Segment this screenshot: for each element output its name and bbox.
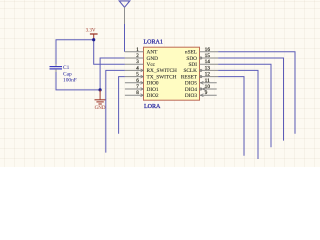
pin name DIO1: [147, 87, 159, 93]
pin 15 edge bubble: [200, 57, 202, 59]
pin 11 DIO5 stub: [200, 82, 217, 84]
svg-text:8: 8: [136, 90, 139, 96]
pin number 4: [136, 65, 139, 71]
wire pin15 SDO: [218, 58, 283, 141]
pin name Vcc: [147, 62, 156, 68]
svg-text:6: 6: [136, 78, 139, 84]
pin number 1: [136, 47, 139, 53]
wire pin12 RESET: [218, 77, 244, 156]
svg-text:LORA1: LORA1: [144, 39, 163, 45]
IC value label LORA: [144, 104, 161, 110]
pin name SDO: [186, 56, 197, 62]
pin number 5: [136, 72, 139, 78]
pin 8 DIO2 stub: [125, 94, 144, 96]
antenna pin stub: [124, 7, 126, 24]
pin name DIO4: [185, 87, 197, 93]
svg-text:DIO1: DIO1: [147, 87, 159, 93]
pin 12 RESET stub: [200, 76, 219, 78]
pin 10 DIO4 stub: [200, 88, 217, 90]
wire pin14 SDI: [218, 64, 271, 147]
wire RX_SWITCH going down: [106, 70, 125, 152]
svg-text:RX_SWITCH: RX_SWITCH: [147, 68, 177, 74]
pin number 14: [205, 59, 211, 65]
pin name DIO0: [147, 81, 159, 87]
pin 6 edge arrow left: [141, 81, 144, 84]
pin name DIO2: [147, 93, 159, 99]
pin 4 edge arrow left: [141, 69, 144, 72]
pin name SCLK: [183, 68, 197, 74]
svg-text:3.3V: 3.3V: [86, 27, 96, 33]
pin 7 edge arrow left: [141, 88, 144, 91]
svg-text:10: 10: [205, 84, 211, 90]
svg-text:1: 1: [136, 47, 139, 53]
svg-text:12: 12: [205, 72, 211, 78]
junction node ground: [99, 88, 102, 91]
pin 13 edge bubble: [200, 69, 202, 71]
pin 16 nSEL stub: [200, 51, 219, 53]
svg-text:RESET: RESET: [181, 74, 198, 80]
3.3V power symbol: [86, 27, 98, 39]
svg-text:SDI: SDI: [188, 62, 197, 68]
wire C1 bottom to ground junction: [56, 72, 100, 90]
pin 12 edge bubble: [200, 76, 202, 78]
pin 8 edge arrow left: [141, 94, 144, 97]
svg-text:2: 2: [136, 53, 139, 59]
pin 10 edge bubble: [200, 88, 202, 90]
svg-text:DIO5: DIO5: [185, 81, 197, 87]
pin 11 edge arrow: [201, 81, 204, 84]
pin 6 DIO0 stub: [125, 82, 144, 84]
pin 15 SDO stub: [200, 57, 219, 59]
svg-text:C1: C1: [63, 65, 70, 71]
svg-text:14: 14: [205, 59, 211, 65]
svg-text:16: 16: [205, 47, 211, 53]
pin name SDI: [188, 62, 197, 68]
pin 7 DIO1 stub: [125, 88, 144, 90]
pin number 10: [205, 84, 211, 90]
svg-text:SCLK: SCLK: [183, 68, 197, 74]
pin 10 edge arrow: [203, 88, 206, 91]
pin number 6: [136, 78, 139, 84]
svg-text:GND: GND: [147, 56, 159, 62]
svg-text:Cap: Cap: [63, 71, 72, 77]
pin 9 edge arrow: [201, 94, 204, 97]
svg-text:11: 11: [205, 78, 210, 84]
pin 5 TX_SWITCH stub: [125, 76, 144, 78]
svg-text:9: 9: [205, 90, 208, 96]
wire 3.3V rail to C1 top: [56, 40, 94, 64]
IC designator LORA1: [144, 39, 163, 45]
IC U1 body LORA1: [144, 47, 200, 100]
wire GND pin down to ground: [100, 58, 125, 90]
pin 13 SCLK stub: [200, 69, 219, 71]
pin number 11: [205, 78, 210, 84]
ground symbol GND: [95, 90, 106, 111]
pin 5 edge arrow left: [141, 75, 144, 78]
pin 14 SDI stub: [200, 63, 219, 65]
svg-text:DIO2: DIO2: [147, 93, 159, 99]
svg-text:15: 15: [205, 53, 211, 59]
svg-text:Vcc: Vcc: [147, 62, 156, 68]
junction node 3.3V: [92, 38, 95, 41]
pin 2 GND stub: [125, 57, 144, 59]
pin 1 ANT stub: [125, 51, 144, 53]
wire pin16 nSEL: [218, 52, 295, 134]
pin number 3: [136, 59, 139, 65]
svg-text:TX_SWITCH: TX_SWITCH: [147, 74, 177, 80]
pin number 9: [205, 90, 208, 96]
wire pin13 SCLK: [218, 70, 258, 159]
pin number 16: [205, 47, 211, 53]
svg-text:13: 13: [205, 65, 211, 71]
svg-text:4: 4: [136, 65, 139, 71]
pin number 12: [205, 72, 211, 78]
capacitor C1 labels: [63, 65, 77, 83]
pin 9 DIO3 stub: [200, 94, 217, 96]
pin name GND: [147, 56, 159, 62]
pin name DIO3: [185, 93, 197, 99]
pin number 7: [136, 84, 139, 90]
wire TX_SWITCH going down: [119, 77, 125, 134]
svg-text:3: 3: [136, 59, 139, 65]
pin name ANT: [147, 50, 159, 56]
svg-text:DIO4: DIO4: [185, 87, 197, 93]
svg-text:nSEL: nSEL: [185, 50, 197, 56]
pin name RX_SWITCH: [147, 68, 177, 74]
svg-text:DIO3: DIO3: [185, 93, 197, 99]
pin name nSEL: [185, 50, 197, 56]
svg-text:LORA: LORA: [144, 104, 161, 110]
pin 4 RX_SWITCH stub: [125, 69, 144, 71]
svg-text:SDO: SDO: [186, 56, 197, 62]
svg-text:GND: GND: [95, 106, 106, 111]
svg-text:ANT: ANT: [147, 50, 159, 56]
antenna E1 symbol triangle: [119, 1, 130, 7]
wire antenna to ANT pin: [124, 24, 126, 52]
pin name RESET: [181, 74, 198, 80]
pin 3 Vcc stub: [125, 63, 144, 65]
pin number 2: [136, 53, 139, 59]
svg-text:7: 7: [136, 84, 139, 90]
pin number 13: [205, 65, 211, 71]
wire 3.3V down to Vcc pin: [94, 40, 125, 64]
svg-text:5: 5: [136, 72, 139, 78]
pin name DIO5: [185, 81, 197, 87]
svg-text:DIO0: DIO0: [147, 81, 159, 87]
pin number 8: [136, 90, 139, 96]
svg-text:100nF: 100nF: [63, 77, 77, 83]
capacitor C1: [50, 64, 63, 72]
pin number 15: [205, 53, 211, 59]
pin name TX_SWITCH: [147, 74, 177, 80]
